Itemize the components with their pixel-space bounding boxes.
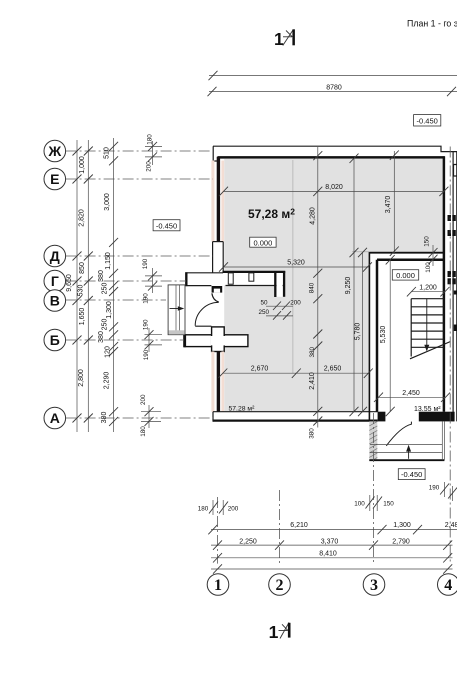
top wall inner thick line [218,156,445,159]
left porch [168,285,185,335]
svg-text:2,290: 2,290 [104,372,111,390]
svg-text:150: 150 [423,236,430,247]
stair room bottom wall left jamb [378,412,386,422]
adjacent wall bracket top right [454,165,457,177]
svg-text:380: 380 [98,270,105,282]
porch right arrow up [408,448,410,459]
svg-text:510: 510 [103,147,110,159]
bottom dim row 2: 2250 3370 2790 [211,538,453,549]
mini dim 180/200 at top left wall [145,134,162,172]
axis line Ж [66,150,213,152]
mini dim 190 axis 4 [429,482,457,501]
svg-text:1,000: 1,000 [79,156,86,174]
svg-text:2,800: 2,800 [78,369,85,387]
svg-text:250: 250 [258,309,269,316]
dim 4280/840/380/2410 vertical [308,147,322,439]
svg-text:5,780: 5,780 [355,323,362,341]
svg-text:57.28 м²: 57.28 м² [229,406,256,413]
svg-text:150: 150 [383,501,394,508]
svg-text:850: 850 [79,262,86,274]
svg-text:2,410: 2,410 [309,372,316,390]
svg-text:2,670: 2,670 [251,366,269,373]
svg-text:3: 3 [370,577,378,594]
dim 5320 [219,260,372,272]
stair room bottom wall right part [419,412,455,422]
svg-text:200: 200 [290,300,301,307]
svg-text:190: 190 [143,319,150,330]
svg-text:530: 530 [78,285,85,297]
dim 5780 vertical [355,248,368,416]
right wall inner thick line [443,156,446,411]
svg-text:250: 250 [101,283,108,295]
top wall outer line [213,146,457,151]
witness line center [292,160,294,373]
axis circle Ж [44,140,66,162]
svg-text:4,280: 4,280 [309,207,316,225]
svg-text:9,650: 9,650 [66,274,73,292]
svg-text:13.55 м²: 13.55 м² [414,406,441,413]
left dim chain line axes [78,140,93,432]
axis line 2 [279,490,281,564]
bottom boundary line [211,564,453,573]
svg-text:380: 380 [309,346,316,357]
dim 2450 [374,390,450,402]
svg-text:2: 2 [276,577,284,594]
svg-text:0.000: 0.000 [254,238,273,247]
section mark 1 top [274,29,295,49]
svg-text:9,250: 9,250 [345,277,352,295]
svg-text:8,410: 8,410 [319,551,337,558]
svg-text:2,450: 2,450 [402,390,420,397]
svg-text:380: 380 [98,331,105,343]
top dimension line upper [209,75,457,77]
main room gray floor [224,159,444,412]
entrance door leaf [195,325,211,327]
svg-text:6,210: 6,210 [290,522,308,529]
svg-text:3,470: 3,470 [385,196,392,214]
mini dim 180/200 axis 1 [198,500,239,515]
stair room left wall [368,252,370,421]
svg-text:0.000: 0.000 [396,271,415,280]
axis circle Г [44,270,66,292]
wall band at axis Г [186,273,223,286]
axis circle А [44,407,66,429]
svg-text:1,200: 1,200 [419,284,437,291]
level box -0.450 top [414,115,441,126]
mini dim 150/100 stair wall [423,236,437,273]
svg-text:1: 1 [274,29,284,49]
svg-text:120: 120 [104,346,111,358]
entrance door bottom jamb [212,327,223,334]
level box -0.450 bottom [398,469,425,480]
svg-text:4: 4 [444,577,452,594]
axis line Е [66,178,213,180]
axis line Б [66,339,184,341]
svg-text:840: 840 [309,282,316,293]
svg-text:180: 180 [147,134,154,145]
svg-text:57,28 м2: 57,28 м2 [248,206,295,221]
stairs treads [411,299,444,357]
svg-text:А: А [50,410,60,426]
svg-text:1: 1 [214,577,222,594]
left wall insulation upper (orange) [211,161,214,242]
left wall band below sill [212,242,214,273]
svg-text:190: 190 [429,485,440,492]
svg-text:-0.450: -0.450 [156,221,177,230]
axis circle 3 [363,574,385,596]
svg-text:100: 100 [354,501,365,508]
dim 2670 2650 [218,365,372,378]
axis line 4 [449,147,451,564]
svg-text:2,650: 2,650 [324,365,342,372]
svg-text:190: 190 [142,258,149,269]
left wall insulation lower (orange) [211,352,214,412]
mini dim 50/200/250 niches [258,300,301,320]
svg-text:3,000: 3,000 [104,193,111,211]
axis line А [66,417,213,419]
dim 3470 vertical [385,151,399,256]
svg-text:3,370: 3,370 [321,538,339,545]
porch right steps [370,444,442,446]
bottom dim row 3: 8410 [211,551,453,563]
svg-text:190: 190 [143,293,150,304]
svg-text:Б: Б [50,332,60,348]
wall niche A [228,273,233,284]
dim 5530 vertical [380,255,395,416]
right wall outer line [452,152,454,422]
window sill line [213,241,224,243]
entrance door top jamb [212,286,223,293]
svg-text:-0.450: -0.450 [401,470,422,479]
stairs down arrow [424,299,429,352]
svg-text:50: 50 [260,300,268,307]
svg-text:380: 380 [101,412,108,424]
svg-text:1,150: 1,150 [105,252,112,270]
svg-text:8780: 8780 [326,85,342,92]
axis circle 2 [269,574,291,596]
level box -0.450 left [153,220,180,231]
svg-text:План 1 - го этажа: План 1 - го этажа [407,19,457,29]
svg-text:5,320: 5,320 [287,260,305,267]
axis circle Е [44,168,66,190]
svg-text:Е: Е [50,171,59,187]
stairs break line [410,342,451,359]
svg-text:380: 380 [308,428,315,439]
svg-text:Ж: Ж [47,143,61,159]
svg-text:5,530: 5,530 [380,326,387,344]
level box 0.000 stair [392,270,418,280]
entrance door swing arc [195,302,219,325]
left wall top corner [213,146,217,161]
svg-text:1,300: 1,300 [106,301,113,319]
svg-text:180: 180 [198,506,209,513]
svg-text:200: 200 [228,506,239,513]
witness line at stair top wall [352,251,369,253]
svg-text:8,020: 8,020 [325,184,343,191]
right wall tie symbols on axis 4 [448,215,457,331]
svg-text:190: 190 [143,349,150,360]
top dimension line 8780 [208,85,457,97]
axis circle Д [44,245,66,267]
axis circle 1 [207,574,229,596]
svg-text:2,250: 2,250 [239,538,257,545]
wall niche B [249,273,254,281]
svg-text:1,650: 1,650 [79,308,86,326]
axis circle 4 [438,574,457,596]
svg-text:1: 1 [269,622,279,642]
level box 0.000 main [250,237,276,247]
svg-text:Г: Г [51,273,59,289]
axis line Д [66,255,213,257]
svg-text:2,480: 2,480 [445,522,457,529]
svg-text:1,300: 1,300 [393,522,411,529]
axis line В [66,299,166,301]
section mark 1 bottom [269,622,291,642]
svg-text:Д: Д [50,248,60,264]
porch hatch strip right [369,421,377,461]
entrance door small arc [212,293,219,302]
column cross at Б [212,327,225,352]
bottom wall of main room [213,411,378,413]
interior ledge thick line with step [223,271,286,273]
stair room top wall [369,252,444,254]
left wall cut line lower thick [217,352,220,412]
svg-text:180: 180 [140,426,147,437]
left dim chain line details [98,138,118,432]
axis circle В [44,290,66,312]
wall band at axis Б [184,335,248,347]
svg-text:2,790: 2,790 [392,538,410,545]
axis circle Б [44,329,66,351]
svg-text:-0.450: -0.450 [417,116,438,125]
axis line 3 [373,413,375,564]
mini dim 200/180 at А wall [140,394,161,437]
svg-text:250: 250 [101,319,108,331]
dim 8020 [219,184,448,196]
left wall cut line upper thick [217,157,220,242]
svg-text:2,820: 2,820 [78,209,85,227]
mini dim 190 at Г wall [142,258,162,304]
axis line Г [66,280,186,282]
svg-text:В: В [50,292,60,308]
axis line 1 [217,497,219,564]
svg-text:200: 200 [146,161,153,172]
svg-text:100: 100 [425,262,432,273]
left overall dim line 9650 [66,140,82,432]
exterior door leaf and arc [386,422,411,446]
bottom dim row 1: 6210 1300 2480 [208,522,457,534]
mini dim 100/150 axis 3 [354,495,394,511]
dim 9250 vertical [345,154,359,417]
dim 1200 [407,284,450,296]
svg-text:200: 200 [140,394,147,405]
vestibule wall white band [223,273,284,286]
mini dim 190/190 at Б wall [143,319,163,360]
